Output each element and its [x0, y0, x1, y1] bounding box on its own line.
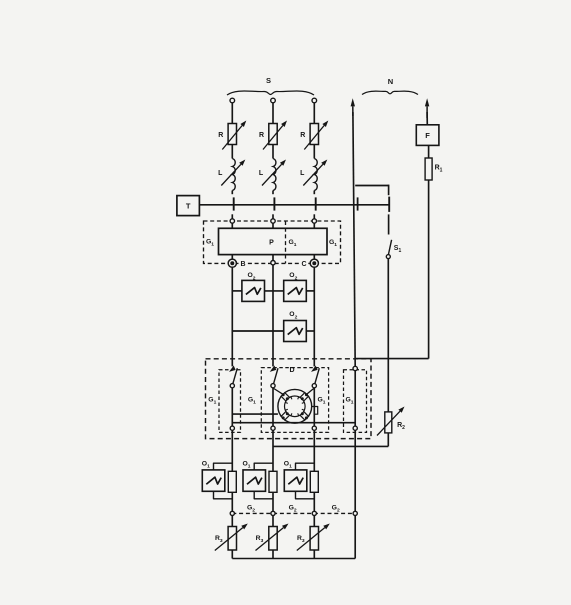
tick at bus end — [388, 197, 390, 212]
inductor L (variable, phase 2) — [259, 159, 276, 191]
surge box O1 phase 2 — [242, 461, 265, 492]
surge box O2 first — [242, 272, 265, 301]
brace over N lines — [362, 91, 418, 94]
wire R to L phase 2 — [272, 145, 274, 159]
wire phase 3 below D — [313, 430, 315, 511]
label D — [289, 367, 294, 374]
wire middle down — [272, 265, 274, 367]
svg-text:L: L — [259, 170, 264, 177]
switch pivot phase 1 — [230, 384, 234, 388]
svg-text:B: B — [240, 261, 245, 268]
node under P middle — [271, 261, 275, 265]
series resistor with O1 phase 3 — [310, 471, 318, 492]
wire O1 bottom loop phase 3 — [296, 491, 315, 499]
wire F to R1 — [428, 145, 430, 158]
rotary regulator (slip-ring device) — [278, 389, 312, 423]
tick at bus crossing phase 3 — [315, 197, 317, 210]
node N line top of D — [353, 366, 357, 370]
node bottom of D line 1 — [230, 426, 234, 430]
wire arrow to F box — [426, 112, 428, 125]
arrow through R2 — [377, 407, 405, 436]
svg-text:S: S — [266, 76, 271, 85]
svg-text:L: L — [300, 170, 305, 177]
stub P box to mid node — [272, 255, 274, 261]
svg-text:N: N — [388, 77, 393, 86]
resistor R (variable, phase 2) — [259, 124, 277, 145]
wire phase 1 terminal to R — [231, 103, 233, 124]
wire R to L phase 1 — [231, 145, 233, 159]
wire bus to node phase 1 — [231, 214, 233, 221]
wire phase 3 terminal to R — [313, 103, 315, 124]
label G1 cell 2 — [248, 397, 256, 406]
wire phase 2 terminal to R — [272, 103, 274, 124]
wire switch to bottom phase 3 — [313, 388, 315, 426]
label G1 left — [206, 238, 214, 247]
arrow through R3 phase 2 — [256, 524, 289, 551]
arrow through R phase 2 — [263, 121, 287, 150]
switch blade phase 3 — [315, 368, 319, 383]
dashed sub-box left — [219, 370, 241, 433]
stub rotor right — [312, 407, 318, 415]
series resistor with O1 phase 1 — [228, 471, 236, 492]
switch blade phase 2 — [274, 368, 278, 383]
stub node to P box phase 1 — [231, 223, 233, 228]
wire bus to node phase 2 — [272, 214, 274, 221]
label G1 mid — [288, 239, 296, 248]
terminal S2 (phase 2 supply terminal) — [271, 98, 276, 103]
bus wire from T — [199, 204, 388, 206]
node on G2 line 2 — [271, 511, 275, 515]
resistor R3 (variable, phase 3) — [297, 527, 319, 551]
stub P box to C — [313, 255, 315, 260]
arrow through R phase 3 — [304, 121, 328, 150]
wire L down phase 3 — [313, 191, 315, 195]
jumper N1 to S1 line — [355, 185, 388, 187]
wire phase 1 below D — [231, 430, 233, 511]
wire G2 node to R3 phase 3 — [313, 516, 315, 527]
terminal C — [301, 259, 318, 268]
wire B to O2 third — [232, 330, 283, 332]
label G1 cell 1 — [208, 397, 216, 406]
svg-text:R: R — [218, 132, 223, 139]
wire O1 bottom loop phase 1 — [214, 491, 233, 499]
label N (network group) — [388, 77, 393, 86]
switch S1 pivot — [386, 255, 390, 259]
arrow through R3 phase 1 — [215, 524, 248, 551]
label G2 second — [289, 504, 297, 513]
resistor R1 — [425, 158, 443, 180]
wire O2 third to C — [306, 330, 314, 332]
wire bus to node phase 3 — [313, 214, 315, 221]
wire B to O2 first — [232, 290, 242, 292]
wire O1 top loop phase 3 — [296, 463, 315, 470]
node on dashed edge phase 3 — [312, 219, 316, 223]
tick at bus crossing phase 1 — [233, 197, 235, 210]
wire phase 2 below D — [272, 430, 274, 511]
label G1 cell 3 — [317, 397, 325, 406]
switch pivot phase 3 — [312, 384, 316, 388]
wire R3 to bottom bus phase 1 — [231, 550, 233, 559]
arrow through R phase 1 — [222, 121, 246, 150]
node on dashed edge phase 2 — [271, 219, 275, 223]
label S (supply group) — [266, 76, 271, 85]
return wire R2 to phase 2 — [273, 445, 388, 447]
wire O2 first to O2 second — [265, 290, 284, 292]
wire O2 second to C — [306, 290, 314, 292]
wire N line inside D — [354, 371, 356, 426]
dashed divider inside G1 enclosure — [285, 221, 287, 263]
wire switch to bottom phase 1 — [231, 388, 233, 426]
label G1 cell 4 — [345, 397, 353, 406]
terminal S1 (phase 1 supply terminal) — [230, 98, 235, 103]
wire O1 top loop phase 1 — [214, 463, 233, 470]
wire R3 to bottom bus phase 2 — [272, 550, 274, 559]
svg-text:L: L — [218, 170, 223, 177]
switch S1 wire to blade — [388, 214, 390, 234]
wire switch to bottom phase 2 — [272, 388, 274, 426]
terminal B — [228, 259, 245, 268]
label G1 right — [329, 239, 337, 248]
brace over S lines — [227, 91, 314, 95]
label G2 third — [332, 504, 340, 513]
svg-text:F: F — [425, 131, 430, 140]
node bottom of D line 4 — [353, 426, 357, 430]
switch blade phase 1 — [233, 368, 237, 383]
wire N line below D — [354, 430, 356, 511]
wire L down phase 1 — [231, 191, 233, 195]
arrow through L phase 3 — [303, 160, 327, 186]
surge box O1 phase 1 — [202, 461, 225, 492]
terminal S3 (phase 3 supply terminal) — [312, 98, 317, 103]
wire O1 top loop phase 2 — [254, 463, 273, 470]
wire R2 bottom — [387, 433, 389, 447]
wire G2 node to R3 phase 1 — [231, 516, 233, 527]
stub phase 2 to rotor — [273, 388, 283, 395]
inductor L (variable, phase 3) — [300, 159, 317, 191]
surge box O2 second — [284, 272, 307, 301]
node on G2 line 3 — [312, 511, 316, 515]
surge box O1 phase 3 — [284, 461, 307, 492]
switch S1 blade — [388, 240, 401, 255]
svg-text:P: P — [269, 240, 274, 247]
svg-text:R: R — [300, 132, 305, 139]
switch contact arrow phase 1 — [229, 366, 236, 372]
wire C down — [313, 267, 315, 366]
wire S1 to R2 — [387, 259, 389, 412]
bus inside D — [232, 422, 355, 424]
wire B down — [231, 267, 233, 366]
resistor R (variable, phase 3) — [300, 124, 318, 145]
stub phase 3 to rotor — [306, 388, 314, 395]
resistor R3 (variable, phase 1) — [215, 527, 237, 551]
wire R1 down to D-box return — [428, 180, 430, 359]
label P — [269, 240, 274, 247]
bottom bus — [232, 558, 355, 560]
wire L down phase 2 — [272, 191, 274, 195]
label G2 first — [247, 504, 255, 513]
stub node to P box phase 3 — [313, 223, 315, 228]
wire N line 1 down — [353, 112, 355, 366]
arrow up N line 1 — [351, 98, 355, 116]
switch S1 upper wire — [388, 185, 390, 196]
node bottom of D line 3 — [312, 426, 316, 430]
dashed enclosure D — [206, 359, 372, 439]
node on G2 line 1 — [230, 511, 234, 515]
wire N line to bottom bus — [354, 516, 356, 559]
tick at bus crossing N line — [357, 197, 359, 210]
wire O1 bottom loop phase 2 — [254, 491, 273, 499]
arrow through L phase 2 — [262, 160, 286, 186]
resistor R2 (variable) — [385, 412, 405, 433]
regulator box P — [219, 228, 328, 254]
wire R to L phase 3 — [313, 145, 315, 159]
dashed control line G2 — [232, 512, 355, 514]
wire G2 node to R3 phase 2 — [272, 516, 274, 527]
transformer box T — [177, 196, 200, 216]
arrow through L phase 1 — [221, 160, 245, 186]
arrow through R3 phase 3 — [297, 524, 330, 551]
node bottom of D line 2 — [271, 426, 275, 430]
surge box O2 third — [284, 311, 307, 341]
stub node to P box phase 2 — [272, 223, 274, 228]
dashed enclosure G1 group (around P) — [204, 221, 341, 263]
dashed sub-box middle — [261, 368, 328, 433]
resistor R (variable, phase 1) — [218, 124, 236, 145]
svg-text:C: C — [301, 261, 306, 268]
series resistor with O1 phase 2 — [269, 471, 277, 492]
switch contact arrow phase 3 — [311, 366, 318, 372]
return wire to N line 1 — [355, 358, 428, 360]
arrow up F line — [425, 98, 429, 118]
svg-text:R: R — [259, 132, 264, 139]
wire phase 1 to rotor left — [232, 413, 278, 415]
wire R3 to bottom bus phase 3 — [313, 550, 315, 559]
node on G2 line 4 — [353, 511, 357, 515]
node on dashed edge phase 1 — [230, 219, 234, 223]
fuse F — [416, 125, 439, 146]
tick at bus crossing phase 2 — [273, 197, 275, 210]
stub P box to B — [231, 255, 233, 260]
svg-text:T: T — [186, 201, 191, 210]
switch contact arrow phase 2 — [270, 366, 277, 372]
switch pivot phase 2 — [271, 384, 275, 388]
inductor L (variable, phase 1) — [218, 159, 235, 191]
dashed sub-box right — [344, 370, 367, 433]
resistor R3 (variable, phase 2) — [256, 527, 278, 551]
